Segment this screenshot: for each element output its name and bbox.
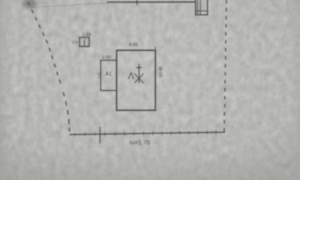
- svg-text:6.85: 6.85: [129, 42, 138, 47]
- svg-text:2.60: 2.60: [102, 54, 111, 59]
- baseline ticks: [75, 130, 216, 136]
- svg-text:2.5: 2.5: [72, 41, 77, 45]
- outbuilding rect with 1: [79, 37, 89, 46]
- shed inner vertical lines: [198, 0, 201, 15]
- annex A1 rect: [101, 60, 117, 90]
- smudge at top of dashed boundary: [23, 0, 36, 9]
- shed at top boundary: [196, 0, 208, 15]
- main building rect: [117, 50, 156, 110]
- top boundary line faint left part: [30, 3, 107, 8]
- shed inner horizontal line: [196, 10, 208, 12]
- svg-text:Λ: Λ: [128, 71, 134, 81]
- vertical dashed boundary line: [224, 0, 226, 132]
- svg-text:10.48: 10.48: [158, 66, 163, 78]
- svg-text:Iн=1.70: Iн=1.70: [130, 141, 151, 147]
- svg-text:A1: A1: [106, 72, 112, 78]
- long survey mark on baseline: [99, 127, 101, 144]
- tick on top boundary: [136, 0, 138, 5]
- numeral 1 inside outbuilding: [81, 39, 88, 46]
- svg-text:2.5: 2.5: [96, 72, 101, 78]
- dashed diagonal boundary line: [28, 2, 62, 88]
- svg-text:2.88: 2.88: [82, 32, 91, 37]
- top boundary line: [107, 1, 196, 3]
- paper background: [0, 0, 300, 180]
- tick above building corner: [154, 47, 156, 51]
- bottom baseline with ticks: [70, 132, 226, 134]
- mast symbol inside building: [135, 64, 144, 83]
